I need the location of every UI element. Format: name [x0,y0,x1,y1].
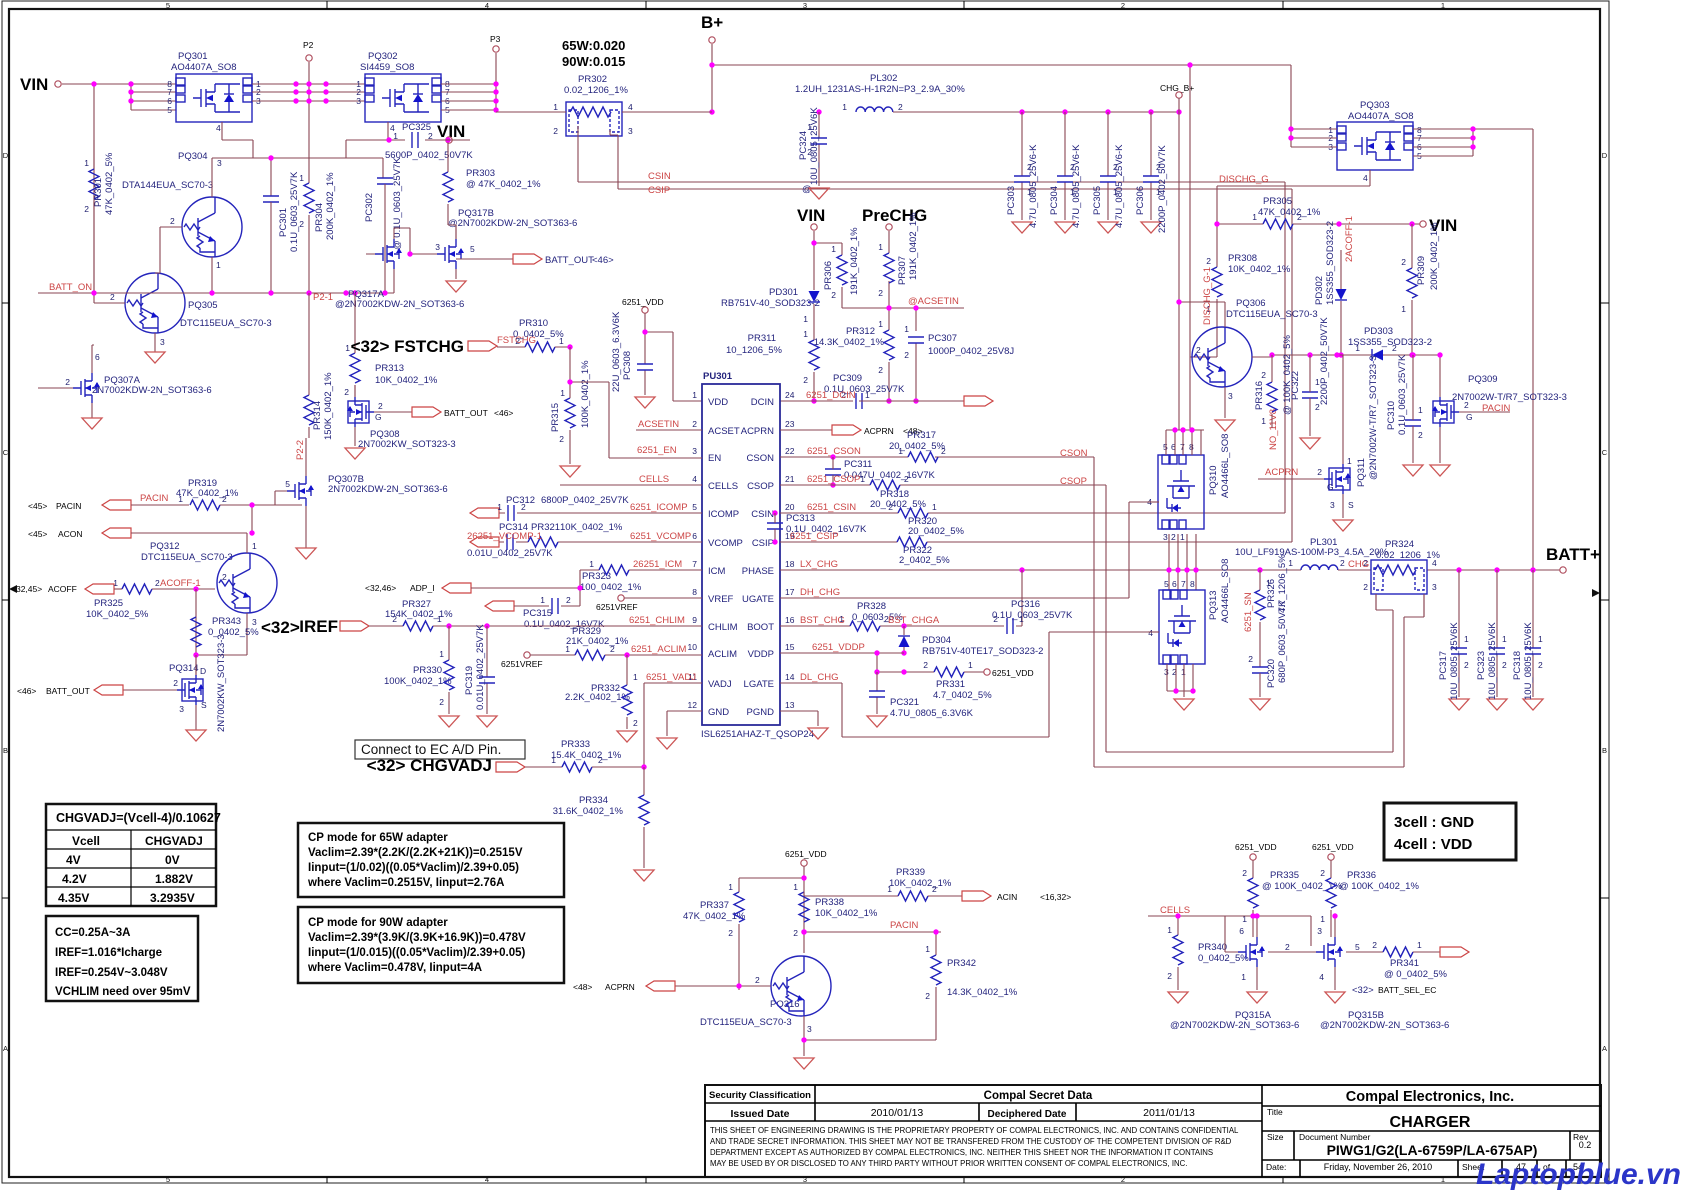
svg-text:2N7002KW_SOT323-3: 2N7002KW_SOT323-3 [216,634,227,732]
svg-text:PC310: PC310 [1386,401,1397,430]
svg-text:16: 16 [785,615,795,625]
svg-text:5: 5 [1164,579,1169,589]
svg-text:NO_11V8: NO_11V8 [1268,409,1279,450]
svg-text:PR338: PR338 [815,897,844,908]
svg-text:CELLS: CELLS [639,474,669,485]
svg-text:4V: 4V [66,853,81,867]
svg-text:5: 5 [166,1175,170,1184]
svg-text:<32>: <32> [1352,985,1374,996]
svg-text:10U_LF919AS-100M-P3_4.5A_20%: 10U_LF919AS-100M-P3_4.5A_20% [1235,547,1389,558]
svg-text:1: 1 [878,242,883,252]
capacitor PC319 [486,626,488,714]
svg-text:47K_0402_1%: 47K_0402_1% [1258,207,1321,218]
svg-text:AO4466L_SO8: AO4466L_SO8 [1220,559,1231,623]
svg-text:4cell : VDD: 4cell : VDD [1394,836,1473,853]
svg-text:0.1U_0603_25V7K: 0.1U_0603_25V7K [289,171,300,252]
svg-text:6251VREF: 6251VREF [596,602,638,612]
capacitor PC311 [825,469,841,475]
flag BATT_OUT [513,254,542,264]
ground PGND (pin13) [780,711,818,726]
svg-text:PC308: PC308 [622,351,633,380]
svg-text:PR317: PR317 [907,430,936,441]
svg-text:Issued Date: Issued Date [731,1108,790,1120]
svg-text:AND TRADE SECRET INFORMATION.: AND TRADE SECRET INFORMATION. THIS SHEET… [710,1137,1232,1146]
svg-text:3: 3 [628,126,633,136]
svg-text:4: 4 [485,1,489,10]
svg-text:2200P_0402_50V7K: 2200P_0402_50V7K [1157,145,1168,233]
ground (PQ316) [794,1058,814,1069]
svg-text:1: 1 [968,660,973,670]
svg-text:CHG_B+: CHG_B+ [1160,83,1194,93]
svg-text:PQ310: PQ310 [1208,465,1219,495]
svg-text:BST_CHGA: BST_CHGA [888,615,940,626]
svg-text:13: 13 [785,700,795,710]
svg-text:47K_0402_5%: 47K_0402_5% [104,152,115,215]
capacitor PC323 [1496,570,1498,697]
capacitor PC305 [1107,112,1109,220]
svg-text:6251_CSIN: 6251_CSIN [807,502,856,513]
svg-text:1SS355_SOD323-2: 1SS355_SOD323-2 [1325,221,1336,305]
svg-text:PQ306: PQ306 [1236,298,1266,309]
svg-text:3: 3 [1317,926,1322,936]
svg-text:2: 2 [1363,582,1368,592]
svg-text:Vaclim=2.39*(3.9K/(3.9K+16.9K): Vaclim=2.39*(3.9K/(3.9K+16.9K))=0.478V [308,932,526,944]
svg-text:14.3K_0402_1%: 14.3K_0402_1% [947,987,1018,998]
svg-text:PQ312: PQ312 [150,541,180,552]
svg-text:BATT_OUT: BATT_OUT [545,255,594,266]
svg-text:0.1U_0603_25V7K: 0.1U_0603_25V7K [992,610,1073,621]
svg-text:2: 2 [1196,345,1201,355]
resistor PR304 [304,183,314,213]
svg-text:6251_VDD: 6251_VDD [622,297,664,307]
svg-text:1SS355_SOD323-2: 1SS355_SOD323-2 [1348,337,1432,348]
wire VIN bus [62,84,176,110]
svg-text:PR339: PR339 [896,867,925,878]
svg-text:65W:0.020: 65W:0.020 [562,38,625,53]
svg-text:1.882V: 1.882V [155,872,193,886]
svg-text:2: 2 [898,102,903,112]
svg-text:1: 1 [299,173,304,183]
svg-text:0.1U_0603_25V7K: 0.1U_0603_25V7K [1397,354,1408,435]
svg-text:PD303: PD303 [1364,326,1393,337]
svg-text:7: 7 [692,559,697,569]
svg-text:2: 2 [1242,868,1247,878]
capacitor PC302 [377,178,393,184]
svg-text:CC=0.25A~3A: CC=0.25A~3A [55,927,130,939]
svg-text:0.01U_0402_25V7K: 0.01U_0402_25V7K [467,548,553,559]
svg-text:GND: GND [708,707,729,718]
svg-text:PR303: PR303 [466,168,495,179]
svg-text:BOOT: BOOT [747,622,774,633]
capacitor PC304 [1064,112,1066,220]
svg-text:ACON: ACON [58,529,83,539]
svg-text:1: 1 [1355,343,1360,353]
svg-text:1: 1 [1502,634,1507,644]
svg-text:2: 2 [1297,212,1302,222]
wire PQ313 bottom to ground [1167,664,1193,697]
svg-text:2: 2 [344,387,349,397]
svg-text:Vaclim=2.39*(2.2K/(2.2K+21K))=: Vaclim=2.39*(2.2K/(2.2K+21K))=0.2515V [308,847,523,859]
terminal VIN [55,81,61,87]
svg-text:BST_CHG: BST_CHG [800,615,845,626]
svg-text:P2-1: P2-1 [313,292,333,303]
svg-text:3: 3 [252,617,257,627]
svg-text:Date:: Date: [1266,1162,1286,1172]
svg-text:31.6K_0402_1%: 31.6K_0402_1% [553,806,624,817]
svg-text:BATT_ON: BATT_ON [49,282,92,293]
svg-text:ACPRN: ACPRN [605,982,635,992]
svg-text:5: 5 [1355,942,1360,952]
wire PQ310 top bar [1166,430,1204,455]
svg-text:PQ314: PQ314 [169,663,199,674]
svg-text:6251_VDD: 6251_VDD [785,849,827,859]
svg-text:2: 2 [878,288,883,298]
svg-text:2: 2 [904,350,909,360]
svg-text:10: 10 [688,642,698,652]
svg-text:3: 3 [692,446,697,456]
svg-text:Laptopblue.vn: Laptopblue.vn [1476,1158,1681,1190]
svg-text:PC313: PC313 [786,513,815,524]
svg-text:@2N7002KDW-2N_SOT363-6: @2N7002KDW-2N_SOT363-6 [448,218,577,229]
svg-text:3: 3 [356,96,361,106]
node 6251_VDD out + resistor PR331 [877,671,984,673]
svg-text:15: 15 [785,642,795,652]
svg-text:3: 3 [1432,582,1437,592]
junction dots [91,81,96,86]
CP mode 90W box [298,907,564,983]
svg-text:VREF: VREF [708,594,734,605]
svg-text:VIN: VIN [797,206,825,225]
svg-text:IREF=0.254V~3.048V: IREF=0.254V~3.048V [55,967,168,979]
svg-text:18: 18 [785,559,795,569]
svg-text:PR328: PR328 [857,601,886,612]
svg-text:4: 4 [692,474,697,484]
svg-text:100_0402_1%: 100_0402_1% [580,582,642,593]
svg-text:PR333: PR333 [561,739,590,750]
svg-text:22: 22 [785,446,795,456]
svg-text:2: 2 [728,928,733,938]
svg-text:5: 5 [692,502,697,512]
ground GND pin12 [667,711,702,736]
svg-text:1: 1 [1347,456,1352,466]
svg-text:@ 100K_0402_1%: @ 100K_0402_1% [1339,881,1419,892]
svg-text:C: C [1602,448,1608,457]
svg-text:2: 2 [1340,558,1345,568]
svg-text:VCOMP: VCOMP [708,538,743,549]
svg-text:PC303: PC303 [1006,186,1017,215]
svg-text:1: 1 [865,390,870,400]
svg-text:AO4407A_SO8: AO4407A_SO8 [1348,111,1414,122]
svg-text:6: 6 [95,352,100,362]
svg-text:22U_0603_6.3V6K: 22U_0603_6.3V6K [611,311,622,392]
svg-text:Security Classification: Security Classification [709,1090,811,1101]
svg-text:12: 12 [688,700,698,710]
svg-text:1: 1 [1180,532,1185,542]
svg-text:1: 1 [1315,377,1320,387]
svg-text:PC325: PC325 [402,122,431,133]
svg-text:CSOP: CSOP [747,481,774,492]
svg-text:3: 3 [1330,500,1335,510]
svg-text:S: S [201,700,207,710]
svg-text:680P_0603_50V7K: 680P_0603_50V7K [1277,600,1288,683]
capacitor PC317 [1458,570,1460,697]
svg-text:2: 2 [1502,660,1507,670]
wire PQ303 pins [1291,129,1533,570]
svg-text:1: 1 [565,644,570,654]
svg-text:PR340: PR340 [1198,942,1227,953]
svg-text:PQ309: PQ309 [1468,374,1498,385]
svg-text:2: 2 [1464,400,1469,410]
svg-text:CHLIM: CHLIM [708,622,738,633]
svg-text:PR307: PR307 [897,256,908,285]
svg-text:1: 1 [904,324,909,334]
svg-text:A: A [3,1044,8,1053]
svg-text:21K_0402_1%: 21K_0402_1% [566,636,629,647]
svg-text:3: 3 [179,704,184,714]
svg-text:@2N7002KDW-2N_SOT363-6: @2N7002KDW-2N_SOT363-6 [1170,1020,1299,1031]
wire PR324 sense pins [1376,594,1424,617]
wire PQ301 gate pin4 [222,122,253,158]
svg-text:Document Number: Document Number [1299,1132,1371,1142]
svg-text:2: 2 [1315,402,1320,412]
svg-text:PACIN: PACIN [56,501,81,511]
svg-text:2: 2 [923,660,928,670]
ground (PQ305) [145,352,165,363]
svg-text:0V: 0V [165,853,180,867]
svg-text:1: 1 [84,158,89,168]
flag ACIN [962,891,991,901]
svg-text:1: 1 [559,336,564,346]
svg-text:PU301: PU301 [703,371,733,382]
svg-text:14: 14 [785,672,795,682]
svg-text:ISL6251AHAZ-T_QSOP24: ISL6251AHAZ-T_QSOP24 [701,729,814,740]
svg-text:DTC115EUA_SC70-3: DTC115EUA_SC70-3 [700,1017,792,1028]
svg-text:1: 1 [1266,578,1271,588]
svg-text:1000P_0402_25V8J: 1000P_0402_25V8J [928,346,1014,357]
svg-text:PC311: PC311 [844,459,872,470]
svg-text:1: 1 [842,102,847,112]
title block [705,1085,1601,1177]
svg-text:<32> CHGVADJ: <32> CHGVADJ [367,756,492,775]
svg-text:1: 1 [860,474,865,484]
svg-text:PR325: PR325 [94,598,123,609]
svg-text:SI4459_SO8: SI4459_SO8 [360,62,414,73]
svg-text:2: 2 [610,644,615,654]
svg-text:VDDP: VDDP [748,649,774,660]
svg-text:3: 3 [435,242,440,252]
svg-text:PC304: PC304 [1049,186,1060,215]
svg-text:RB751V-40_SOD323-2: RB751V-40_SOD323-2 [721,298,820,309]
svg-text:PR314: PR314 [312,401,323,430]
svg-text:2: 2 [553,126,558,136]
svg-text:26251_ICM: 26251_ICM [633,559,682,570]
svg-text:6251_VDD: 6251_VDD [1312,842,1354,852]
capacitor PC308 [637,364,653,370]
svg-text:2: 2 [1171,532,1176,542]
svg-text:1: 1 [393,131,398,141]
svg-text:PC318: PC318 [1512,651,1523,680]
svg-text:Compal Secret Data: Compal Secret Data [984,1090,1093,1102]
svg-text:ACOFF: ACOFF [48,584,77,594]
svg-text:DTC115EUA_SC70-3: DTC115EUA_SC70-3 [141,552,233,563]
svg-text:<46>: <46> [494,408,513,418]
svg-text:1: 1 [839,614,844,624]
resistor PR314 [304,395,314,425]
svg-text:2: 2 [173,678,178,688]
svg-text:2: 2 [439,697,444,707]
svg-text:DTC115EUA_SC70-3: DTC115EUA_SC70-3 [1226,309,1318,320]
svg-text:10U_0805_25V6K: 10U_0805_25V6K [1487,622,1498,700]
wire LX bar between [1166,534,1301,590]
svg-text:4.7U_0805_25V6-K: 4.7U_0805_25V6-K [1028,144,1039,228]
svg-text:RB751V-40TE17_SOD323-2: RB751V-40TE17_SOD323-2 [922,646,1043,657]
svg-text:PC302: PC302 [364,193,375,222]
svg-text:4.7U_0805_25V6-K: 4.7U_0805_25V6-K [1071,144,1082,228]
svg-text:1.2UH_1231AS-H-1R2N=P3_2.9A_30: 1.2UH_1231AS-H-1R2N=P3_2.9A_30% [795,84,965,95]
svg-text:PQ304: PQ304 [178,151,208,162]
svg-text:10U_0805_25V6K: 10U_0805_25V6K [1449,622,1460,700]
svg-text:0.2: 0.2 [1579,1140,1592,1150]
svg-text:CSIP: CSIP [752,538,774,549]
svg-text:ACSETIN: ACSETIN [638,419,679,430]
svg-text:CSIN: CSIN [751,509,774,520]
svg-text:CP mode for 90W adapter: CP mode for 90W adapter [308,917,448,929]
svg-text:VADJ: VADJ [708,679,732,690]
svg-text:1: 1 [692,390,697,400]
svg-text:14.3K_0402_1%: 14.3K_0402_1% [814,337,885,348]
svg-text:2: 2 [1285,942,1290,952]
svg-text:PQ303: PQ303 [1360,100,1390,111]
svg-text:ACPRN: ACPRN [741,426,774,437]
resistor PR307 [884,253,894,283]
capacitor PC303 [1021,112,1023,220]
svg-text:20_0402_5%: 20_0402_5% [908,526,965,537]
svg-text:21: 21 [785,474,795,484]
svg-text:2: 2 [803,375,808,385]
svg-text:2N7002KDW-2N_SOT363-6: 2N7002KDW-2N_SOT363-6 [328,484,448,495]
svg-text:3: 3 [807,1024,812,1034]
svg-text:Compal Electronics, Inc.: Compal Electronics, Inc. [1346,1089,1514,1105]
capacitor PC316 [1007,618,1013,634]
svg-text:0.02_1206_1%: 0.02_1206_1% [564,85,628,96]
svg-text:1: 1 [1418,405,1423,415]
svg-text:Friday, November 26, 2010: Friday, November 26, 2010 [1324,1162,1432,1172]
svg-text:VCHLIM need over 95mV: VCHLIM need over 95mV [55,986,191,998]
svg-text:@2N7002W-T/R7_SOT323-3: @2N7002W-T/R7_SOT323-3 [1368,355,1379,480]
svg-text:AO4407A_SO8: AO4407A_SO8 [171,62,237,73]
svg-text:1: 1 [1464,634,1469,644]
svg-text:PC306: PC306 [1135,186,1146,215]
svg-text:2: 2 [1464,660,1469,670]
svg-text:4: 4 [628,102,633,112]
svg-text:PR309: PR309 [1416,256,1427,285]
svg-text:@ 0_0402_5%: @ 0_0402_5% [1384,969,1448,980]
svg-text:PQ302: PQ302 [368,51,398,62]
terminal VIN right [1420,221,1426,227]
flag DCIN out [964,396,993,406]
svg-text:1: 1 [633,672,638,682]
svg-text:200K_0402_1%: 200K_0402_1% [325,172,336,240]
svg-text:CHGVADJ=(Vcell-4)/0.10627: CHGVADJ=(Vcell-4)/0.10627 [56,811,221,825]
svg-text:6251_ACLIM: 6251_ACLIM [631,644,687,655]
svg-text:ACLIM: ACLIM [708,649,737,660]
terminal 6251VREF (pin8) [618,595,624,601]
svg-text:1: 1 [803,314,808,324]
svg-text:Vcell: Vcell [72,834,100,848]
svg-text:PR305: PR305 [1263,196,1292,207]
svg-text:<32,45>: <32,45> [11,584,42,594]
svg-text:PC301: PC301 [278,208,289,237]
svg-text:2: 2 [378,401,383,411]
svg-text:2: 2 [1372,940,1377,950]
svg-text:AO4466L_SO8: AO4466L_SO8 [1220,434,1231,498]
svg-text:THIS SHEET OF ENGINEERING DRAW: THIS SHEET OF ENGINEERING DRAWING IS THE… [710,1126,1239,1135]
svg-text:2N7002KDW-2N_SOT363-6: 2N7002KDW-2N_SOT363-6 [92,385,212,396]
resistor PR306 [837,255,847,285]
svg-text:6251_VCOMP: 6251_VCOMP [630,531,691,542]
svg-text:PC319: PC319 [464,666,475,695]
svg-text:3: 3 [160,337,165,347]
svg-text:PD301: PD301 [769,287,798,298]
svg-text:PQ301: PQ301 [178,51,208,62]
svg-text:6251VREF: 6251VREF [501,659,543,669]
svg-text:6251_CHLIM: 6251_CHLIM [629,615,685,626]
svg-text:10K_0402_1%: 10K_0402_1% [889,878,952,889]
svg-text:2: 2 [1248,654,1253,664]
svg-text:10U_0805_25V6K: 10U_0805_25V6K [1523,622,1534,700]
svg-text:PR337: PR337 [700,900,729,911]
svg-text:2010/01/13: 2010/01/13 [871,1107,924,1119]
svg-text:10K_0402_1%: 10K_0402_1% [375,375,438,386]
svg-text:6: 6 [1239,926,1244,936]
svg-text:5: 5 [167,105,172,115]
svg-text:2: 2 [904,474,909,484]
svg-text:2: 2 [1538,660,1543,670]
svg-text:ICOMP: ICOMP [708,509,739,520]
svg-text:2ACOFF-1: 2ACOFF-1 [1344,216,1355,262]
svg-text:VDD: VDD [708,397,728,408]
svg-text:Title: Title [1267,1107,1283,1117]
svg-text:DEPARTMENT EXCEPT AS AUTHORIZE: DEPARTMENT EXCEPT AS AUTHORIZED BY COMPA… [710,1148,1213,1157]
svg-text:4.2V: 4.2V [62,872,87,886]
svg-text:PGND: PGND [747,707,775,718]
svg-text:1: 1 [1401,304,1406,314]
svg-text:PC317: PC317 [1438,651,1449,680]
svg-text:BATT_OUT: BATT_OUT [46,686,90,696]
svg-text:G: G [375,412,382,422]
svg-text:2: 2 [941,446,946,456]
svg-text:@2N7002KDW-2N_SOT363-6: @2N7002KDW-2N_SOT363-6 [335,299,464,310]
svg-text:PR312: PR312 [846,326,875,337]
svg-text:DTA144EUA_SC70-3: DTA144EUA_SC70-3 [122,180,213,191]
svg-text:2: 2 [633,718,638,728]
svg-text:<32> FSTCHG: <32> FSTCHG [351,337,464,356]
svg-text:PR324: PR324 [1385,539,1414,550]
svg-text:1: 1 [728,882,733,892]
3cell/4cell box [1384,803,1516,860]
svg-text:Iinput=(1/0.015)((0.05*Vaclim): Iinput=(1/0.015)((0.05*Vaclim)/2.39+0.05… [308,947,526,959]
svg-text:@ 47K_0402_1%: @ 47K_0402_1% [466,179,541,190]
terminal 6251VREF (PR329) [524,652,530,658]
svg-text:@ACSETIN: @ACSETIN [908,296,959,307]
svg-text:PR302: PR302 [578,74,607,85]
svg-text:1: 1 [1417,940,1422,950]
svg-text:CP mode for 65W adapter: CP mode for 65W adapter [308,832,448,844]
svg-text:P2-2: P2-2 [295,440,306,460]
svg-text:3: 3 [1163,532,1168,542]
svg-text:8: 8 [1190,579,1195,589]
svg-text:0.01U_0402_25V7K: 0.01U_0402_25V7K [475,624,486,710]
